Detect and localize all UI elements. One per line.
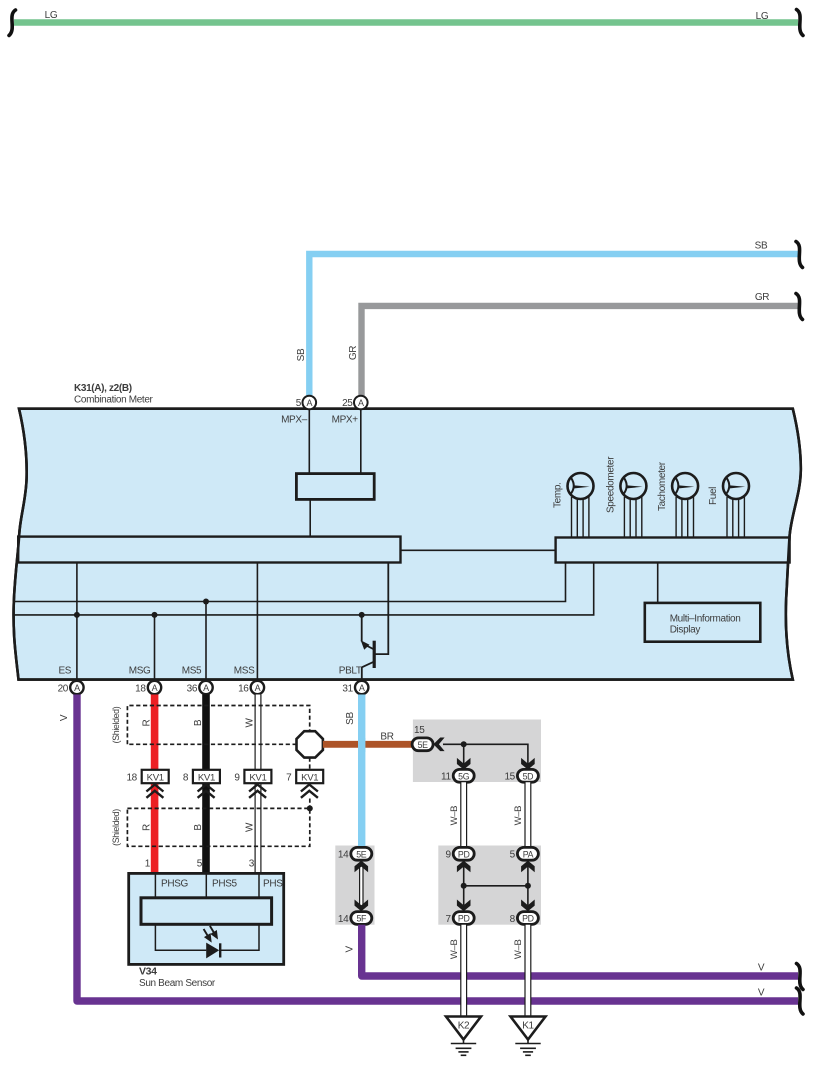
right internal bus [556, 538, 790, 563]
svg-text:25: 25 [342, 398, 353, 409]
oval 5F [351, 912, 372, 925]
wire W-B (5G to PD) [460, 782, 467, 847]
arrow up into PD 9 [457, 861, 471, 873]
svg-text:5: 5 [510, 850, 516, 861]
photodiode D [206, 943, 219, 959]
svg-text:PD: PD [522, 914, 534, 924]
node ES junction [74, 612, 80, 618]
svg-text:Display: Display [670, 625, 701, 636]
svg-text:KV1: KV1 [198, 772, 215, 783]
wire R red (MSG) [151, 695, 159, 875]
svg-text:A: A [152, 683, 158, 693]
svg-text:14: 14 [338, 914, 349, 925]
oval 5E (top) [412, 738, 433, 751]
pin 25 A [354, 396, 368, 410]
svg-text:5G: 5G [458, 771, 470, 781]
transistor emitter arrowhead [361, 640, 370, 649]
MPX interface block [296, 474, 374, 500]
chevrons KV1 7 [301, 785, 318, 798]
pin 16 A [251, 681, 264, 694]
svg-text:1: 1 [145, 859, 151, 870]
svg-text:W–B: W–B [513, 940, 524, 960]
pin 36 A [199, 681, 212, 694]
svg-text:9: 9 [234, 772, 240, 783]
pin 31 A [355, 681, 368, 694]
svg-text:15: 15 [504, 772, 515, 783]
svg-text:V: V [758, 988, 765, 999]
svg-text:W: W [244, 718, 255, 728]
svg-text:16: 16 [238, 683, 249, 694]
svg-text:14: 14 [338, 850, 349, 861]
svg-text:5E: 5E [418, 740, 429, 750]
svg-text:R: R [141, 719, 152, 726]
wire V purple from 5F [362, 925, 798, 976]
node PBLT junction [359, 612, 365, 618]
svg-text:Multi–Information: Multi–Information [670, 614, 741, 625]
svg-text:(Shielded): (Shielded) [111, 706, 121, 743]
svg-text:K1: K1 [522, 1021, 534, 1032]
svg-text:V: V [758, 963, 765, 974]
svg-text:K31(A), z2(B): K31(A), z2(B) [74, 383, 132, 394]
svg-text:K2: K2 [458, 1021, 470, 1032]
arrow into 5E (left) [433, 738, 444, 752]
wire ES vertical [76, 563, 78, 682]
svg-text:BR: BR [380, 732, 393, 743]
node MS5 junction [203, 599, 209, 605]
svg-text:KV1: KV1 [147, 772, 164, 783]
svg-text:KV1: KV1 [249, 772, 266, 783]
ground K1 [511, 1017, 546, 1056]
svg-text:PHS5: PHS5 [212, 879, 238, 890]
svg-text:Combination Meter: Combination Meter [74, 394, 154, 405]
wire MSS vertical [256, 563, 258, 682]
svg-text:V: V [345, 945, 356, 952]
gauge Fuel [708, 473, 749, 538]
svg-text:W–B: W–B [449, 806, 460, 826]
svg-text:20: 20 [58, 683, 69, 694]
svg-text:PD: PD [458, 914, 470, 924]
wire BR brown [323, 741, 412, 748]
shielded box 1 (dashed) [127, 706, 309, 745]
wire W-B (5D to PA) [524, 782, 531, 847]
svg-text:Tachometer: Tachometer [657, 461, 668, 511]
wire MS5 vertical [205, 602, 207, 682]
svg-text:SB: SB [296, 348, 307, 361]
connector break right (GR) [796, 294, 803, 320]
wire LG [14, 19, 798, 26]
svg-text:5: 5 [197, 859, 203, 870]
svg-text:V34: V34 [139, 966, 157, 978]
connector break right (LG) [797, 10, 804, 36]
arrow up into 5E [355, 861, 369, 873]
svg-text:Fuel: Fuel [708, 487, 719, 505]
left internal bus [18, 537, 400, 563]
svg-text:31: 31 [342, 683, 353, 694]
sensor internal pin lines [154, 874, 156, 899]
svg-text:LG: LG [45, 10, 58, 21]
oval PD 8 [517, 912, 538, 925]
connector break right (V bottom) [797, 988, 804, 1014]
junction wiring 5E to 5G/5D [443, 744, 528, 764]
connector break left (LG) [9, 10, 16, 36]
svg-text:W–B: W–B [513, 806, 524, 826]
chevrons KV1 9 [249, 785, 266, 798]
svg-text:A: A [255, 683, 261, 693]
svg-text:V: V [59, 714, 70, 721]
bus link wire [401, 549, 556, 551]
internal horizontal line upper [14, 564, 566, 602]
svg-text:KV1: KV1 [301, 772, 318, 783]
wire W-B (PD8 to ground K1) [524, 925, 531, 1016]
svg-text:9: 9 [445, 850, 451, 861]
svg-text:SB: SB [755, 241, 768, 252]
connector break right (V top) [797, 964, 804, 990]
gauge Temp. [553, 473, 594, 538]
oval PA 5 [517, 847, 538, 860]
Multi-Information Display box [645, 603, 761, 642]
node shield junction [307, 805, 313, 811]
svg-text:SB: SB [345, 712, 356, 725]
arrow down into PD 7 [457, 900, 471, 912]
chevrons KV1 8 [198, 785, 215, 798]
svg-text:7: 7 [445, 914, 451, 925]
wire from pin 25 to MPX block [360, 409, 362, 475]
dashed link chevron to shield box 2 [309, 799, 311, 809]
oval PD 9 [453, 847, 474, 860]
svg-text:B: B [193, 719, 204, 726]
connector shading box PD [438, 846, 541, 925]
shielded box 2 (dashed) [127, 808, 309, 846]
svg-text:A: A [74, 683, 80, 693]
svg-text:5D: 5D [523, 771, 534, 781]
V34 sun beam sensor box [129, 873, 284, 964]
photodiode circuit wire [155, 924, 259, 950]
meter outline restroke [14, 409, 801, 680]
wire MID vertical [657, 563, 659, 604]
svg-text:5: 5 [296, 398, 302, 409]
light arrows [204, 926, 217, 941]
node PD junction left [461, 883, 467, 889]
wire SB (PBLT) down [358, 695, 365, 849]
oval 5D [517, 769, 538, 782]
svg-text:MSS: MSS [234, 666, 255, 677]
svg-text:LG: LG [756, 11, 769, 22]
svg-text:PD: PD [458, 849, 470, 859]
5E/5F inter-connector link [359, 866, 364, 905]
pin 18 A [148, 681, 161, 694]
svg-text:A: A [358, 398, 364, 408]
arrow down into 5F [355, 900, 369, 912]
svg-text:A: A [306, 398, 312, 408]
svg-text:A: A [203, 683, 209, 693]
gauge Tachometer [657, 461, 698, 537]
svg-text:5E: 5E [356, 849, 367, 859]
svg-text:PA: PA [523, 849, 534, 859]
oval 5E (left) [351, 847, 372, 860]
node MSG junction [152, 612, 158, 618]
arrow into 5G (down) [457, 758, 471, 770]
svg-text:GR: GR [755, 292, 769, 303]
transistor Q (PBLT output) [362, 564, 389, 682]
svg-text:5F: 5F [357, 914, 368, 924]
svg-text:15: 15 [414, 725, 425, 736]
svg-text:MSG: MSG [129, 666, 151, 677]
connector KV1 18 [142, 770, 169, 783]
svg-text:W: W [244, 822, 255, 832]
arrow into 5D (down) [521, 758, 535, 770]
svg-text:7: 7 [286, 772, 292, 783]
gauge Speedometer [605, 456, 646, 538]
svg-text:MS5: MS5 [182, 666, 202, 677]
svg-text:B: B [193, 824, 204, 831]
connector KV1 9 [244, 770, 271, 783]
svg-text:18: 18 [126, 772, 137, 783]
node PD junction right [525, 883, 531, 889]
svg-text:36: 36 [187, 683, 198, 694]
wire SB horizontal+vertical [309, 254, 798, 396]
svg-text:ES: ES [58, 666, 71, 677]
svg-text:(Shielded): (Shielded) [111, 809, 121, 846]
svg-text:11: 11 [441, 772, 451, 783]
SB wire over BR (redraw segment) [358, 738, 365, 752]
wire from pin 5 to MPX block [308, 409, 310, 475]
arrow down into PD 8 [521, 900, 535, 912]
connector KV1 8 [193, 770, 220, 783]
connector shading box 5E/5F [335, 846, 374, 925]
arrow up into PA 5 [521, 861, 535, 873]
node BR junction [461, 741, 467, 747]
svg-text:A: A [359, 683, 365, 693]
sensor inner block [141, 898, 272, 925]
wire MPX block to left bus [309, 499, 311, 537]
svg-text:MPX+: MPX+ [332, 415, 359, 426]
oval 5G [453, 769, 474, 782]
pin 20 A [70, 681, 83, 694]
dashed link octagon to KV1 7 [309, 758, 311, 770]
combination meter body K31(A) z2(B) [14, 409, 801, 680]
svg-text:PBLT: PBLT [339, 666, 362, 677]
svg-text:Sun Beam Sensor: Sun Beam Sensor [139, 978, 216, 989]
svg-text:GR: GR [348, 346, 359, 360]
wire GR horizontal+vertical [362, 306, 799, 396]
wire W white (MSS) [255, 695, 262, 875]
connector shading box J/C [413, 720, 541, 783]
chevrons KV1 18 [146, 785, 163, 798]
svg-text:PHSG: PHSG [161, 879, 189, 890]
svg-text:8: 8 [510, 914, 516, 925]
svg-text:MPX–: MPX– [281, 415, 308, 426]
pin 5 A [303, 396, 317, 410]
svg-text:3: 3 [249, 859, 255, 870]
internal horizontal line lower [14, 564, 594, 615]
shield octagon [297, 731, 323, 757]
svg-text:18: 18 [135, 683, 146, 694]
wire V purple (ES) down and right [77, 695, 798, 1002]
svg-text:Speedometer: Speedometer [605, 456, 616, 513]
connector break right (SB) [796, 242, 803, 268]
oval PD 7 [453, 912, 474, 925]
svg-text:W–B: W–B [449, 940, 460, 960]
svg-text:8: 8 [183, 772, 189, 783]
ground K2 [446, 1017, 481, 1056]
PD/PA middle links [464, 866, 528, 905]
svg-text:PHS: PHS [263, 879, 283, 890]
wire B black (MS5) [202, 695, 210, 875]
wire MSG vertical [154, 615, 156, 681]
wire W-B (PD7 to ground K2) [460, 925, 467, 1016]
svg-text:R: R [141, 824, 152, 831]
svg-text:Temp.: Temp. [553, 483, 564, 508]
connector KV1 7 [296, 770, 323, 783]
